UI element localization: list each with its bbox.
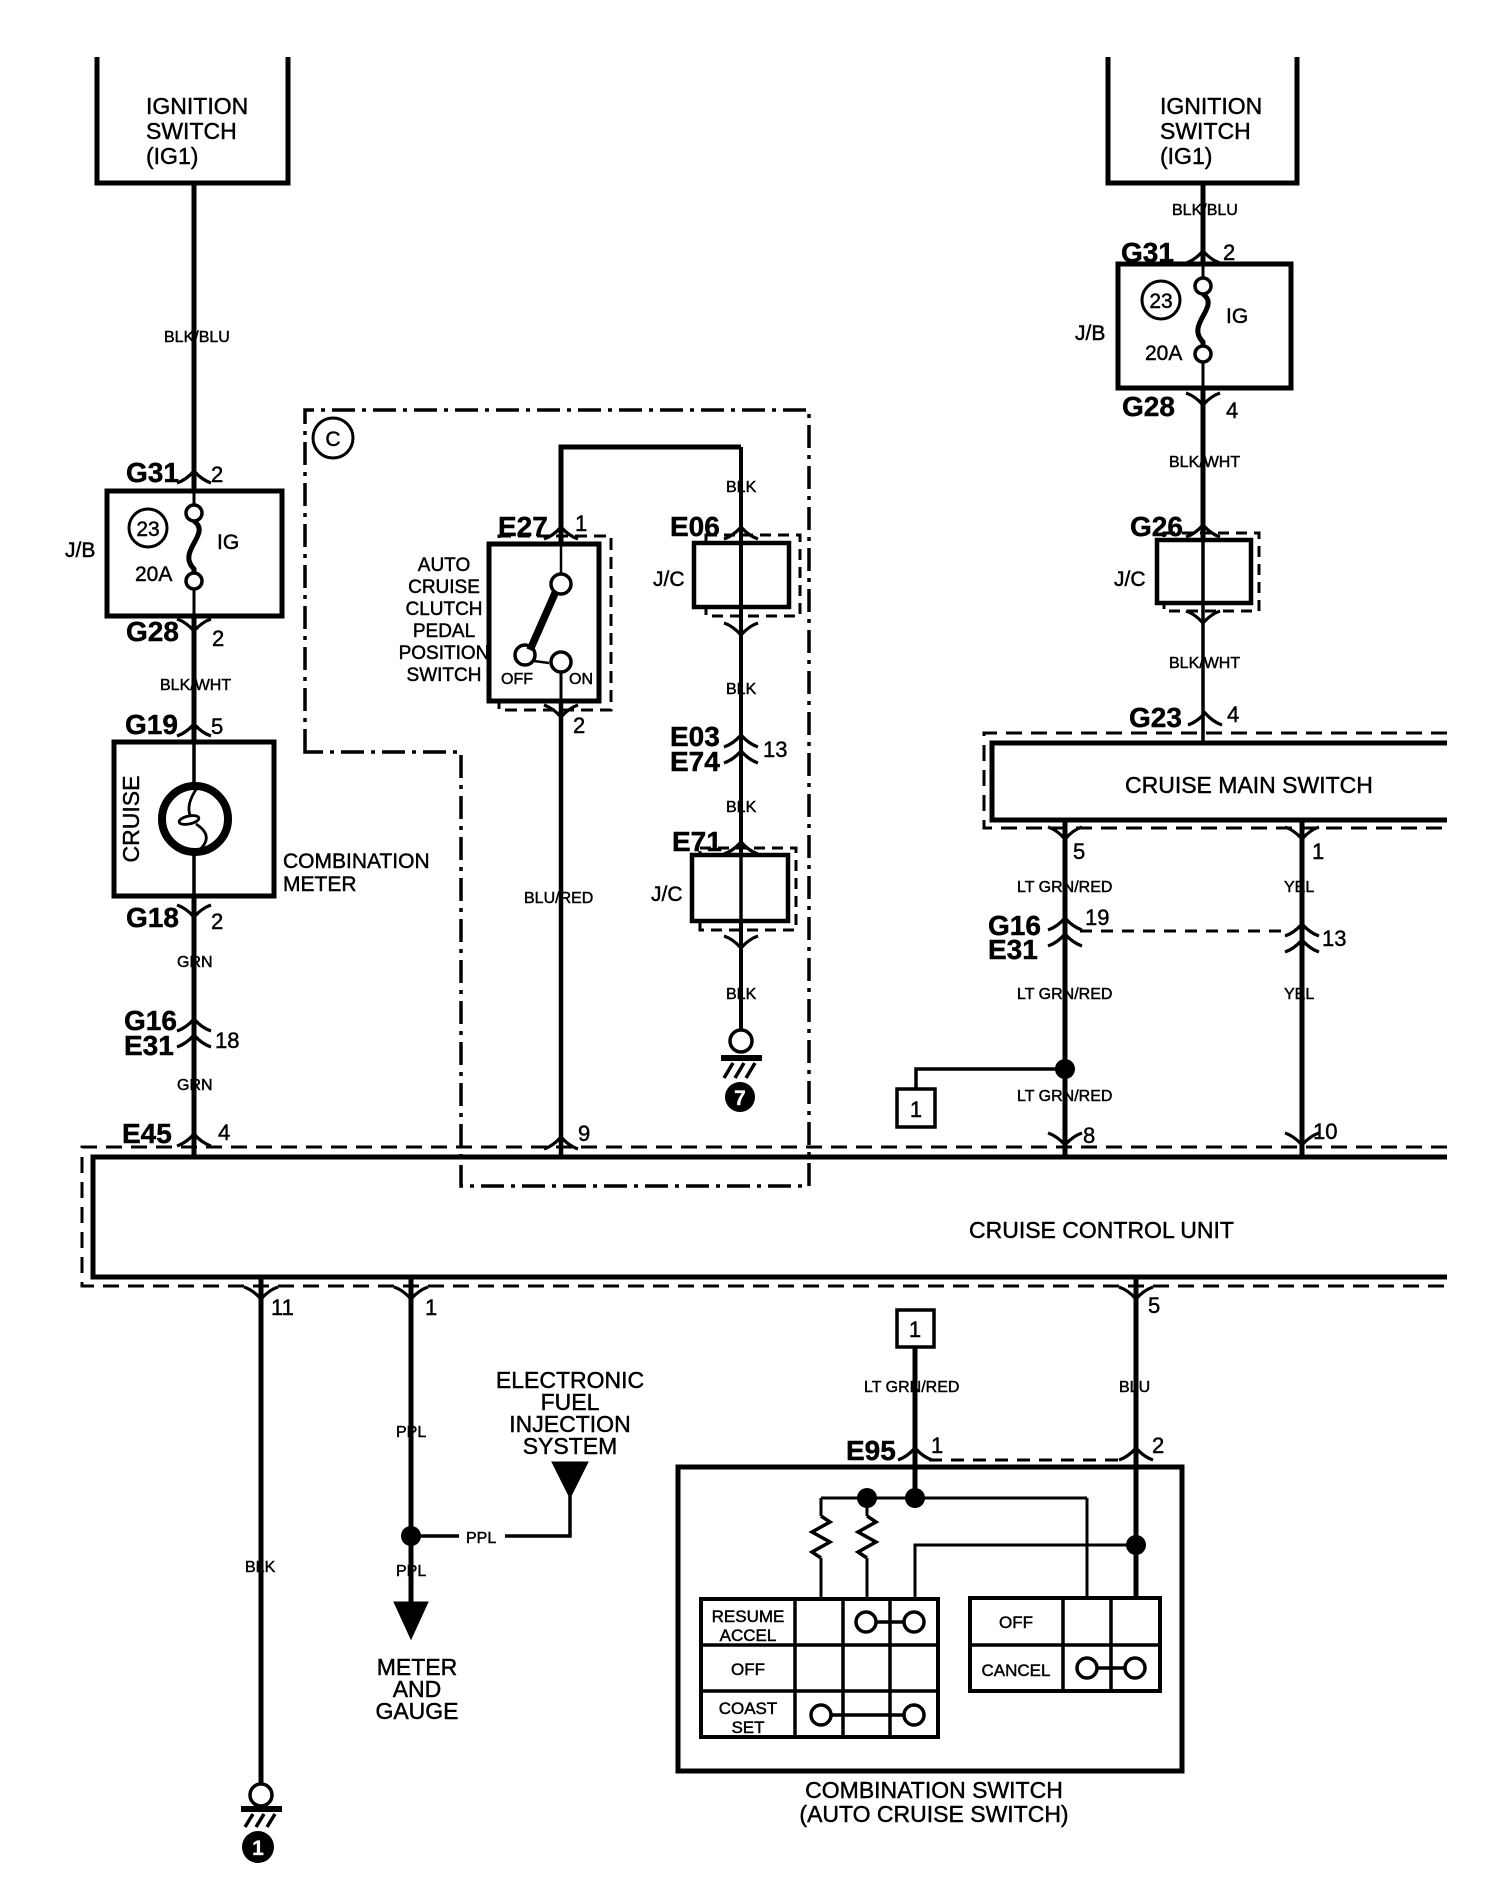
svg-text:CANCEL: CANCEL <box>982 1661 1051 1680</box>
fuse 23 IG 20A left <box>186 491 202 616</box>
fuse number circled 23 <box>129 509 167 547</box>
boxed numeral 1 link bottom <box>897 1310 934 1347</box>
svg-text:13: 13 <box>763 737 787 762</box>
svg-text:(IG1): (IG1) <box>146 143 198 169</box>
svg-text:18: 18 <box>215 1028 239 1053</box>
svg-text:8: 8 <box>1083 1123 1095 1148</box>
svg-text:20A: 20A <box>1145 342 1182 365</box>
svg-text:AUTO: AUTO <box>418 555 470 576</box>
svg-text:BLU/RED: BLU/RED <box>524 890 593 907</box>
wire LT GRN/RED pin5 <box>1063 820 1068 1157</box>
joint connector E06 box <box>694 543 789 607</box>
pin 10 cruise control unit <box>1285 1119 1337 1145</box>
junction block J/B left box <box>107 491 282 616</box>
connector E95 dashed link <box>929 1459 1119 1462</box>
pin 2 of clutch switch <box>544 705 585 738</box>
wire through E71 <box>739 855 743 921</box>
svg-text:11: 11 <box>271 1295 294 1320</box>
wire PPL branch to EFI <box>411 1496 570 1536</box>
joint connector E06 dashed <box>706 535 800 616</box>
svg-text:LT GRN/RED: LT GRN/RED <box>1017 986 1112 1003</box>
ignition switch left label <box>146 93 248 169</box>
connector E71 <box>672 826 758 857</box>
connector G26 <box>1130 511 1220 542</box>
svg-text:BLK/WHT: BLK/WHT <box>1169 655 1240 672</box>
fuse number circled 23 right <box>1142 281 1180 319</box>
connector mark below G26 <box>1186 611 1220 623</box>
svg-text:CRUISE CONTROL UNIT: CRUISE CONTROL UNIT <box>969 1217 1234 1243</box>
svg-text:CLUTCH: CLUTCH <box>405 599 482 620</box>
svg-text:IGNITION: IGNITION <box>1160 93 1262 119</box>
svg-text:COMBINATION SWITCH: COMBINATION SWITCH <box>805 1777 1063 1803</box>
svg-text:ON: ON <box>569 671 593 688</box>
svg-text:E45: E45 <box>122 1118 172 1149</box>
svg-text:G19: G19 <box>125 709 178 740</box>
svg-text:YEL: YEL <box>1284 879 1314 896</box>
svg-text:2: 2 <box>1152 1433 1164 1458</box>
svg-text:POSITION: POSITION <box>399 643 490 664</box>
svg-text:5: 5 <box>1073 839 1085 864</box>
junction dot PPL <box>401 1526 421 1546</box>
connector mark 13 on YEL <box>1285 924 1346 952</box>
wire GRN upper <box>192 896 197 1157</box>
right switch table grid <box>970 1598 1160 1691</box>
svg-text:SWITCH: SWITCH <box>146 118 237 144</box>
joint connector E71 dashed <box>700 848 796 930</box>
svg-text:1: 1 <box>910 1097 922 1122</box>
svg-text:OFF: OFF <box>999 1613 1033 1632</box>
wire to boxed 1 <box>916 1069 1065 1089</box>
svg-text:LT GRN/RED: LT GRN/RED <box>1017 879 1112 896</box>
wire BLU <box>1134 1277 1139 1599</box>
svg-text:GRN: GRN <box>177 954 213 971</box>
wire LT GRN/RED to E95 <box>913 1347 918 1498</box>
junction block J/B right box <box>1118 264 1291 388</box>
svg-text:COAST: COAST <box>719 1699 778 1718</box>
svg-text:METER: METER <box>283 873 357 896</box>
wire YEL pin1 <box>1300 820 1305 1157</box>
svg-text:1: 1 <box>252 1837 264 1860</box>
junction dot LT GRN/RED <box>1055 1059 1075 1079</box>
pin 1 of cruise main switch <box>1285 827 1324 864</box>
wire bus to off column <box>1086 1498 1089 1599</box>
connector G16/E31 right <box>988 905 1109 965</box>
svg-text:BLK/BLU: BLK/BLU <box>1172 202 1238 219</box>
combination switch box <box>678 1467 1182 1771</box>
svg-text:2: 2 <box>1223 240 1235 265</box>
label electronic fuel injection system <box>496 1367 644 1459</box>
svg-text:1: 1 <box>931 1433 943 1458</box>
svg-text:10: 10 <box>1313 1119 1337 1144</box>
svg-text:BLK/BLU: BLK/BLU <box>164 329 230 346</box>
circled C marker <box>313 418 353 458</box>
connector E27 <box>498 511 587 542</box>
svg-text:BLK: BLK <box>726 681 757 698</box>
connector E45 <box>122 1118 230 1149</box>
pin 11 cruise control unit <box>244 1287 294 1320</box>
svg-text:2: 2 <box>573 713 585 738</box>
pin 5 of cruise main switch <box>1048 827 1085 864</box>
clutch pedal switch dashed outline <box>499 536 611 710</box>
svg-text:G28: G28 <box>126 616 179 647</box>
pin 1 bottom cruise control unit <box>394 1287 437 1320</box>
ignition switch (IG1) left box <box>97 57 288 183</box>
svg-text:BLU: BLU <box>1119 1379 1150 1396</box>
svg-text:E06: E06 <box>670 511 720 542</box>
joint connector E71 box <box>692 855 788 921</box>
svg-text:E74: E74 <box>670 746 720 777</box>
svg-text:IGNITION: IGNITION <box>146 93 248 119</box>
svg-text:13: 13 <box>1322 926 1346 951</box>
label meter and gauge <box>375 1654 458 1724</box>
ignition switch (IG1) right box <box>1108 57 1297 183</box>
wire BLK/WHT left <box>192 616 197 742</box>
label COMBINATION METER <box>283 850 430 896</box>
svg-text:E95: E95 <box>846 1435 896 1466</box>
dash-dot boundary box C <box>305 410 809 1186</box>
label combination switch <box>799 1777 1068 1827</box>
svg-text:IG: IG <box>1226 305 1248 328</box>
svg-text:SYSTEM: SYSTEM <box>523 1433 618 1459</box>
svg-text:G18: G18 <box>126 902 179 933</box>
contact cancel <box>1077 1658 1145 1678</box>
connector G18 <box>126 902 223 934</box>
svg-text:5: 5 <box>1148 1293 1160 1318</box>
svg-text:CRUISE: CRUISE <box>118 776 144 863</box>
fuse 23 IG 20A right <box>1195 264 1211 388</box>
connector G28 left <box>126 616 224 651</box>
connector G28 right <box>1122 391 1238 423</box>
switch pole wire <box>560 544 563 574</box>
bus wire in combination switch <box>821 1497 1087 1500</box>
svg-text:YEL: YEL <box>1284 986 1314 1003</box>
junction dot C <box>1126 1535 1146 1555</box>
pin 8 cruise control unit <box>1048 1123 1095 1148</box>
junction dot A <box>857 1488 877 1508</box>
wire from E27 pin1 to E06 branch <box>561 447 741 544</box>
junction dot B <box>905 1488 925 1508</box>
connector G23 <box>1129 702 1239 733</box>
cruise main switch box <box>992 743 1447 820</box>
svg-text:7: 7 <box>734 1087 746 1110</box>
auto cruise clutch pedal position switch box <box>489 544 599 701</box>
meter and gauge arrow <box>394 1602 428 1639</box>
cruise control unit box <box>93 1157 1447 1277</box>
svg-text:GRN: GRN <box>177 1077 213 1094</box>
connector E06 <box>670 511 758 542</box>
resistor R1 <box>812 1498 830 1599</box>
resistor R2 <box>858 1498 876 1599</box>
svg-text:(IG1): (IG1) <box>1160 143 1212 169</box>
svg-text:SWITCH: SWITCH <box>1160 118 1251 144</box>
boxed numeral 1 link <box>897 1089 935 1127</box>
connector G31 right <box>1121 237 1235 268</box>
contact resume-accel <box>856 1612 924 1632</box>
connector mark pin 9 <box>544 1137 578 1149</box>
connector mark below E71 <box>724 936 758 948</box>
wire BLK chain <box>739 447 743 1030</box>
svg-text:1: 1 <box>575 511 587 536</box>
electronic fuel injection system arrow <box>552 1462 588 1498</box>
combination meter box <box>114 742 274 896</box>
label COAST SET <box>719 1699 778 1737</box>
left switch table grid <box>701 1599 938 1737</box>
svg-text:2: 2 <box>211 909 223 934</box>
svg-text:G26: G26 <box>1130 511 1183 542</box>
connector G16/E31 left <box>124 1005 239 1061</box>
svg-text:PPL: PPL <box>396 1563 426 1580</box>
svg-text:2: 2 <box>211 462 223 487</box>
svg-text:G31: G31 <box>126 457 179 488</box>
label RESUME ACCEL <box>712 1607 785 1645</box>
svg-text:OFF: OFF <box>501 671 533 688</box>
svg-text:PEDAL: PEDAL <box>413 621 475 642</box>
svg-text:4: 4 <box>1227 702 1239 727</box>
svg-text:BLK: BLK <box>245 1559 276 1576</box>
svg-text:J/C: J/C <box>653 568 685 591</box>
svg-text:COMBINATION: COMBINATION <box>283 850 430 873</box>
ground id dot 7 <box>725 1082 755 1112</box>
svg-text:CRUISE MAIN SWITCH: CRUISE MAIN SWITCH <box>1125 772 1373 798</box>
wire BLK/WHT right upper <box>1201 388 1206 540</box>
wire through meter <box>192 742 196 896</box>
svg-text:GAUGE: GAUGE <box>375 1698 458 1724</box>
svg-text:E31: E31 <box>124 1030 174 1061</box>
svg-text:23: 23 <box>1149 290 1172 313</box>
svg-text:BLK: BLK <box>726 986 757 1003</box>
ignition switch right label <box>1160 93 1262 169</box>
connector E95 <box>846 1433 943 1466</box>
svg-text:C: C <box>325 428 340 451</box>
svg-text:1: 1 <box>1312 839 1324 864</box>
connector E95 pin 2 <box>1119 1433 1164 1460</box>
wire col3 link <box>915 1545 1136 1599</box>
svg-text:ACCEL: ACCEL <box>720 1626 777 1645</box>
svg-text:BLK/WHT: BLK/WHT <box>160 677 231 694</box>
wire PPL upper <box>409 1277 414 1602</box>
svg-text:BLK/WHT: BLK/WHT <box>1169 454 1240 471</box>
cruise control unit dashed outline <box>82 1147 1447 1286</box>
wire BLK/BLU right <box>1201 183 1206 264</box>
svg-text:23: 23 <box>136 518 159 541</box>
contact coast-set <box>811 1705 924 1725</box>
svg-text:19: 19 <box>1085 905 1109 930</box>
svg-text:LT GRN/RED: LT GRN/RED <box>1017 1088 1112 1105</box>
connector E03/E74 <box>670 721 787 777</box>
ground id dot 1 <box>242 1831 274 1863</box>
svg-text:G28: G28 <box>1122 391 1175 422</box>
svg-text:J/B: J/B <box>65 539 95 562</box>
svg-text:RESUME: RESUME <box>712 1607 785 1626</box>
svg-text:(AUTO CRUISE SWITCH): (AUTO CRUISE SWITCH) <box>799 1801 1068 1827</box>
ground symbol G1 <box>241 1784 282 1827</box>
wire BLU/RED <box>559 701 564 1157</box>
wire BLK ground <box>259 1277 264 1784</box>
svg-text:5: 5 <box>211 714 223 739</box>
joint connector G26 J/C box <box>1157 540 1251 603</box>
pin 5 bottom cruise control unit <box>1119 1287 1160 1318</box>
connector G31 left <box>126 457 223 488</box>
svg-text:PPL: PPL <box>396 1424 426 1441</box>
cruise indicator lamp <box>162 786 228 852</box>
svg-text:J/B: J/B <box>1075 322 1105 345</box>
svg-text:4: 4 <box>218 1120 230 1145</box>
svg-text:E71: E71 <box>672 826 722 857</box>
svg-text:J/C: J/C <box>1114 568 1146 591</box>
svg-text:20A: 20A <box>135 563 172 586</box>
joint connector G26 J/C dashed <box>1164 533 1259 611</box>
svg-text:CRUISE: CRUISE <box>408 577 480 598</box>
switch contacts E27 <box>515 574 571 701</box>
svg-text:G23: G23 <box>1129 702 1182 733</box>
svg-text:1: 1 <box>909 1317 921 1342</box>
connector mark below E06 <box>724 623 758 635</box>
svg-text:2: 2 <box>212 626 224 651</box>
wire BLK/BLU left <box>192 183 197 491</box>
ground symbol G7 <box>721 1030 762 1078</box>
svg-text:SET: SET <box>731 1718 764 1737</box>
svg-text:OFF: OFF <box>731 1660 765 1679</box>
svg-text:4: 4 <box>1226 398 1238 423</box>
connector dashed link 19-13 <box>1080 930 1288 933</box>
svg-text:IG: IG <box>217 531 239 554</box>
svg-text:E31: E31 <box>988 934 1038 965</box>
svg-text:BLK: BLK <box>726 799 757 816</box>
connector G19 <box>125 709 223 740</box>
svg-text:LT GRN/RED: LT GRN/RED <box>864 1379 959 1396</box>
svg-text:PPL: PPL <box>466 1530 496 1547</box>
svg-text:J/C: J/C <box>651 883 683 906</box>
svg-text:9: 9 <box>578 1121 590 1146</box>
label auto cruise clutch pedal position switch <box>399 555 490 686</box>
svg-text:SWITCH: SWITCH <box>407 665 482 686</box>
wire through G26 <box>1201 540 1205 743</box>
cruise main switch dashed outline <box>984 733 1447 828</box>
svg-text:1: 1 <box>425 1295 437 1320</box>
